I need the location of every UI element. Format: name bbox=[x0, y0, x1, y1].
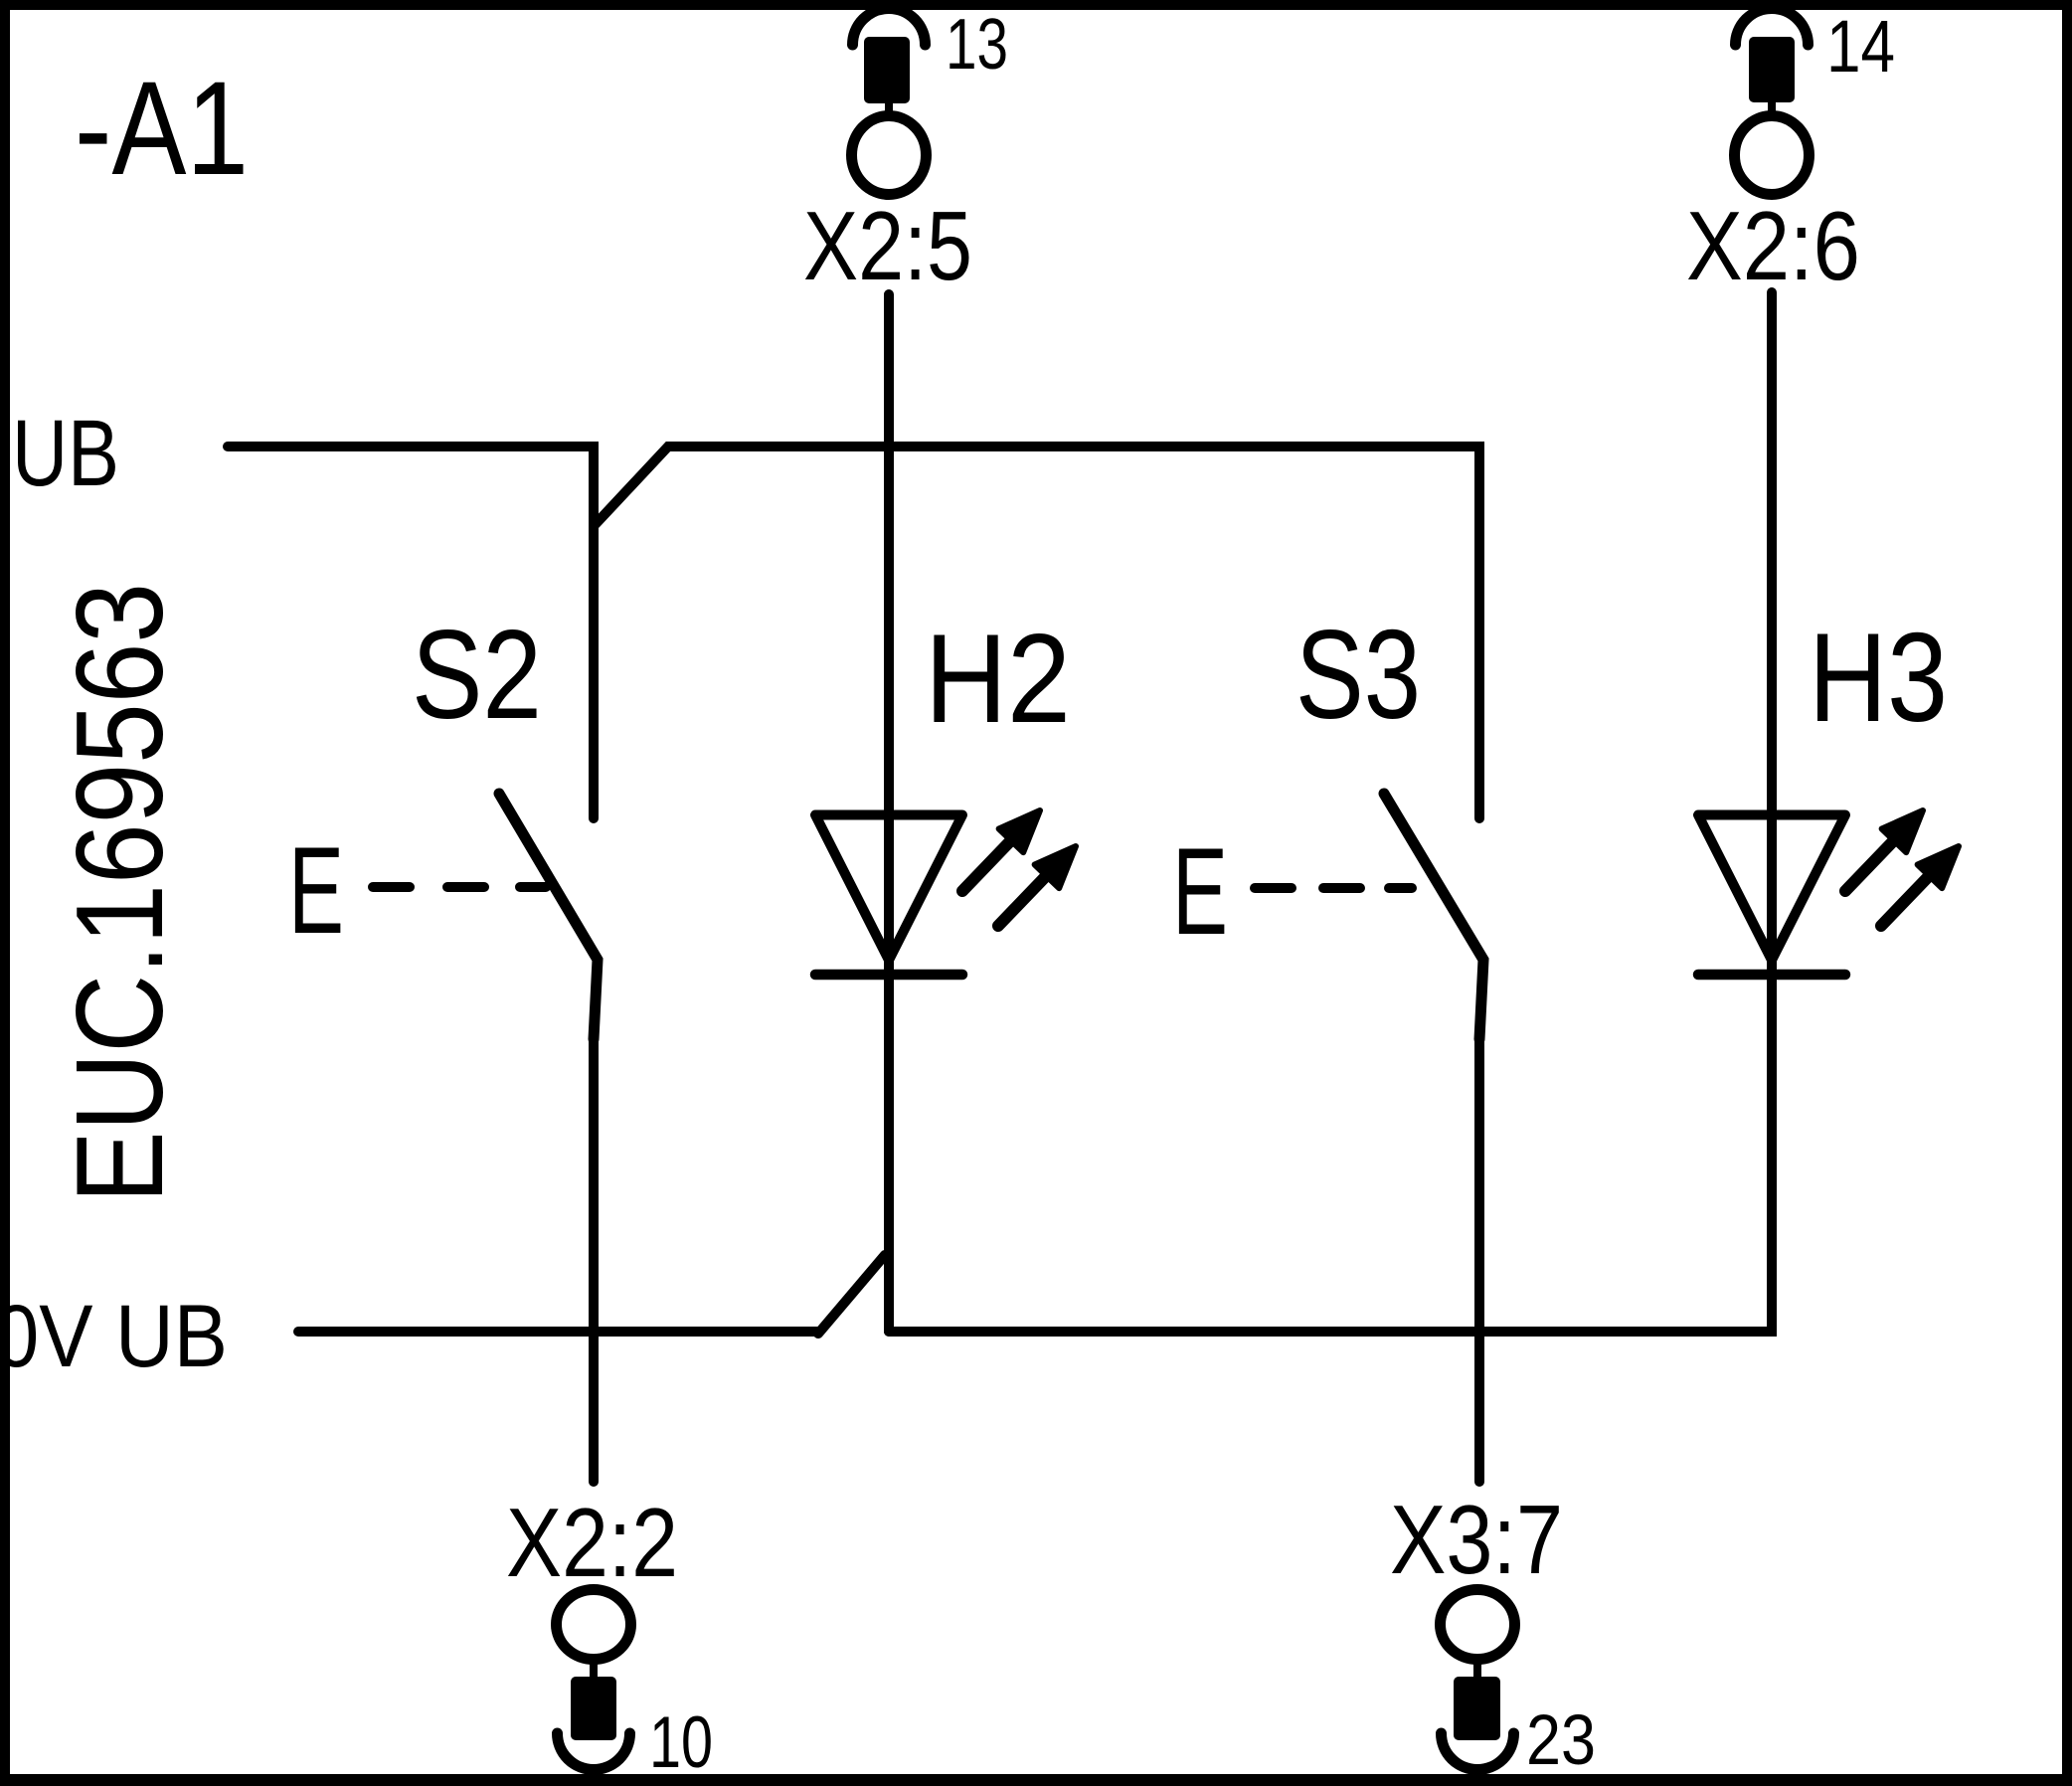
terminal X2:2 socket circle bbox=[557, 1590, 631, 1660]
lamp H2 arrow 2 bbox=[998, 846, 1076, 926]
svg-text:EUC.169563: EUC.169563 bbox=[52, 583, 189, 1203]
terminal X2:5 socket circle bbox=[852, 116, 927, 195]
lamp H2 arrow 1 bbox=[962, 810, 1040, 891]
switch S3 blade bbox=[1384, 794, 1483, 1039]
lamp H2 LED triangle bbox=[815, 815, 962, 961]
terminal X3:7 socket circle bbox=[1441, 1590, 1515, 1660]
svg-text:UB: UB bbox=[12, 401, 119, 506]
terminal X2:2 link bbox=[590, 1659, 598, 1681]
S3 actuator dashed line bbox=[1255, 883, 1412, 893]
svg-text:X2:5: X2:5 bbox=[803, 191, 972, 300]
terminal X2:6 plug arc bbox=[1736, 8, 1809, 45]
border bottom reinforcement bbox=[0, 1774, 2072, 1786]
terminal X2:2 plug body bbox=[571, 1677, 616, 1740]
wire 0V UB jog diagonal to H2 bbox=[818, 1255, 885, 1334]
svg-text:-A1: -A1 bbox=[75, 55, 249, 203]
lamp H2 cathode bar bbox=[815, 970, 962, 981]
svg-text:X2:6: X2:6 bbox=[1686, 191, 1860, 300]
svg-text:H2: H2 bbox=[925, 608, 1071, 749]
svg-text:10: 10 bbox=[649, 1702, 713, 1783]
svg-text:13: 13 bbox=[946, 5, 1008, 85]
wire 0V UB bus left segment bbox=[298, 1327, 818, 1337]
S2 actuator dashed line bbox=[373, 882, 546, 892]
svg-text:H3: H3 bbox=[1809, 607, 1948, 748]
lamp H3 arrow 2 bbox=[1881, 846, 1959, 926]
svg-text:14: 14 bbox=[1826, 5, 1895, 88]
wire S2 lower to X2:2 bbox=[589, 1039, 599, 1482]
svg-text:E: E bbox=[288, 822, 344, 960]
terminal X2:5 plug arc bbox=[853, 8, 926, 45]
svg-text:E: E bbox=[1172, 823, 1228, 961]
svg-text:S3: S3 bbox=[1295, 604, 1421, 745]
terminal X2:6 plug body bbox=[1749, 37, 1795, 102]
lamp H3 arrow 1 bbox=[1845, 810, 1923, 891]
svg-text:0V UB: 0V UB bbox=[0, 1286, 228, 1385]
switch S2 blade bbox=[499, 794, 598, 1039]
svg-text:X2:2: X2:2 bbox=[506, 1488, 678, 1597]
wire S3 lower to X3:7 bbox=[1474, 1039, 1484, 1482]
wire UB bus left segment into S2 bbox=[228, 446, 594, 818]
svg-text:X3:7: X3:7 bbox=[1390, 1485, 1563, 1594]
terminal X3:7 plug body bbox=[1454, 1677, 1500, 1740]
lamp H3 LED triangle bbox=[1698, 815, 1845, 961]
terminal X2:2 plug arc bbox=[558, 1733, 630, 1770]
lamp H3 cathode bar bbox=[1698, 970, 1845, 981]
terminal X2:6 link bbox=[1768, 99, 1776, 117]
wire 0V UB bus right segment up into H3 bbox=[889, 292, 1772, 1332]
svg-text:S2: S2 bbox=[412, 604, 542, 745]
terminal X2:6 socket circle bbox=[1735, 116, 1810, 195]
terminal X3:7 link bbox=[1473, 1659, 1481, 1681]
wire H2 vertical from X2:5 to 0V UB bbox=[884, 294, 894, 1332]
terminal X2:5 link bbox=[885, 99, 893, 117]
svg-text:23: 23 bbox=[1526, 1701, 1596, 1780]
terminal X2:5 plug body bbox=[864, 37, 910, 103]
wire UB bus jog diagonal and right segment into S3 bbox=[596, 446, 1479, 818]
terminal X3:7 plug arc bbox=[1442, 1733, 1514, 1770]
